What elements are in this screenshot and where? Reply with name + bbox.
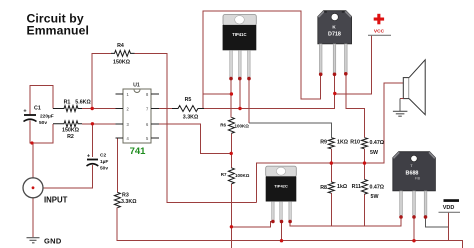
input jack xyxy=(23,178,68,205)
svg-text:3.3KΩ: 3.3KΩ xyxy=(183,115,199,121)
svg-text:5W: 5W xyxy=(371,194,379,200)
resistor R3 xyxy=(114,192,120,207)
svg-text:3.3KΩ: 3.3KΩ xyxy=(121,199,137,205)
resistor R1 xyxy=(53,106,82,112)
wire R6 bottom to junction xyxy=(230,133,232,167)
pin dot TIP42C base xyxy=(271,220,275,224)
junction R6 top node xyxy=(230,92,233,95)
resistor R4 xyxy=(111,50,135,56)
resistor R5 xyxy=(172,106,204,112)
svg-text:150KΩ: 150KΩ xyxy=(113,60,131,66)
wire R7 bottom down across rows to bottom edge xyxy=(230,184,232,248)
VCC terminal xyxy=(368,14,391,36)
junction pin3 node xyxy=(91,122,94,125)
svg-text:Emmanuel: Emmanuel xyxy=(27,24,89,38)
wire C1 top to R1 left xyxy=(30,85,53,115)
wire branch to R6 top xyxy=(203,93,231,95)
pin dot B688 emitter xyxy=(424,215,428,219)
svg-text:D718: D718 xyxy=(328,32,341,38)
junction R6 R7 pin6 node xyxy=(230,152,233,155)
VDD terminal xyxy=(439,199,461,212)
wire pin7 row to D718 collector column xyxy=(159,108,335,110)
wire pin4 down to R3 xyxy=(116,138,118,192)
speaker xyxy=(403,60,425,115)
wire C2 top to pin3 row xyxy=(91,124,93,157)
svg-text:VDD: VDD xyxy=(443,205,455,211)
wire R2 right to pin3 xyxy=(82,123,115,125)
pin dot TIP41C emitter xyxy=(247,77,251,81)
svg-text:150KΩ: 150KΩ xyxy=(62,128,80,134)
transistor Q2 TIP42C xyxy=(266,166,297,220)
svg-text:C1: C1 xyxy=(34,106,41,112)
resistor R7 xyxy=(228,168,234,184)
svg-text:1µF: 1µF xyxy=(100,159,108,165)
wire pin2 node up to R4 left xyxy=(92,53,111,108)
speaker ground xyxy=(393,99,408,117)
junction R7 TIP42C base node xyxy=(230,225,233,228)
svg-text:5W: 5W xyxy=(370,150,378,156)
wire TIP41C collector leg to pin7 row xyxy=(239,78,241,109)
wire TIP41C emitter leg down xyxy=(248,78,250,123)
svg-text:INPUT: INPUT xyxy=(44,196,68,205)
wire TIP42C collector to rail xyxy=(281,222,283,241)
svg-text:741: 741 xyxy=(130,146,147,157)
svg-text:0.47Ω: 0.47Ω xyxy=(370,185,385,191)
resistor R11 xyxy=(362,180,368,195)
wire input junction to R2 xyxy=(33,124,53,143)
wire input circle down to ground xyxy=(32,198,34,237)
junction input coupling node xyxy=(30,141,33,144)
wire R10 bottom to output row xyxy=(364,149,366,163)
svg-text:C2: C2 xyxy=(100,153,106,159)
svg-text:1kΩ: 1kΩ xyxy=(337,184,348,190)
svg-text:R8: R8 xyxy=(320,185,327,191)
junction R10 R11 output node xyxy=(363,161,366,164)
svg-text:R4: R4 xyxy=(117,43,124,49)
junction pin2 feedback node xyxy=(91,107,94,110)
pin dot D718 emitter xyxy=(344,72,348,76)
wire R4 right down to output row xyxy=(135,53,257,202)
junction TIP41C collector row xyxy=(238,107,241,110)
resistor R6 xyxy=(228,117,234,133)
wire input circle to C2 bottom xyxy=(43,165,92,188)
transistor Q4 B688 xyxy=(393,152,436,216)
svg-text:R5: R5 xyxy=(185,97,192,103)
svg-text:U1: U1 xyxy=(133,83,140,89)
title text xyxy=(27,12,89,38)
wire R9 bottom to output row xyxy=(330,149,332,163)
pin dot B688 collector xyxy=(412,215,416,219)
svg-text:5.6KΩ: 5.6KΩ xyxy=(75,100,91,106)
svg-text:R1: R1 xyxy=(64,100,71,106)
svg-text:1KΩ: 1KΩ xyxy=(337,140,349,146)
svg-text:VCC: VCC xyxy=(374,29,385,35)
wire TIP42C base row from R7 column xyxy=(231,222,273,227)
pin dot D718 base xyxy=(319,73,323,77)
svg-text:+: + xyxy=(87,154,90,160)
wire D718 emitter to R10 xyxy=(346,74,365,138)
svg-text:100KΩ: 100KΩ xyxy=(235,173,250,178)
svg-text:R3: R3 xyxy=(122,193,129,199)
pin dot D718 collector xyxy=(333,73,337,77)
svg-text:TIP42C: TIP42C xyxy=(274,184,288,189)
svg-text:100KΩ: 100KΩ xyxy=(235,124,250,129)
capacitor C1 xyxy=(23,106,53,127)
svg-text:R10: R10 xyxy=(350,140,360,146)
wire B688 collector to rail xyxy=(413,217,415,241)
wire R1 right to pin2 xyxy=(82,108,115,110)
junction D718 collector VCC node xyxy=(333,92,336,95)
svg-text:R6: R6 xyxy=(220,123,226,128)
capacitor C2 xyxy=(87,153,109,172)
wire TIP42C emitter bus to B688 base xyxy=(290,217,401,226)
wire R8 column xyxy=(330,163,332,226)
wire top rail TIP41C to D718 base xyxy=(203,11,321,109)
svg-text:50v: 50v xyxy=(39,120,47,126)
wire B688 emitter to VDD column xyxy=(426,217,449,227)
svg-text:220µF: 220µF xyxy=(40,114,54,120)
wire pin6 to R6 R7 junction xyxy=(159,124,231,154)
resistor R8 xyxy=(328,182,334,193)
pin dot TIP42C emitter xyxy=(288,220,292,224)
wire R3 bottom to ground rail xyxy=(117,208,462,248)
transistor Q1 TIP41C xyxy=(223,15,257,78)
svg-text:R7: R7 xyxy=(221,172,227,177)
pin dot TIP41C base xyxy=(229,77,233,81)
svg-text:GND: GND xyxy=(44,237,62,246)
svg-text:R9: R9 xyxy=(320,140,327,146)
svg-text:0.47Ω: 0.47Ω xyxy=(370,140,385,146)
resistor R9 xyxy=(328,138,334,149)
svg-text:R2: R2 xyxy=(67,134,74,140)
wire emitter to R9 top xyxy=(249,123,331,138)
junction TIP42C collector rail xyxy=(280,239,283,242)
pin dot B688 base xyxy=(399,215,403,219)
junction R9 R8 output node xyxy=(330,161,333,164)
svg-text:F/B: F/B xyxy=(415,177,420,181)
ground GND xyxy=(27,237,62,246)
wire C1 bottom to input junction xyxy=(30,121,33,178)
wire VDD down to rail xyxy=(447,212,449,240)
svg-text:TIP41C: TIP41C xyxy=(232,32,246,37)
pin dot TIP42C collector xyxy=(280,220,284,224)
resistor R2 xyxy=(53,121,82,127)
wire D718 collector to VCC xyxy=(335,36,372,109)
wire output row to speaker xyxy=(256,83,403,202)
op-amp U1 741 xyxy=(115,83,159,158)
wire R11 column xyxy=(364,163,366,226)
svg-text:50v: 50v xyxy=(100,166,108,172)
junction B688 collector rail xyxy=(412,239,415,242)
svg-text:+: + xyxy=(23,109,26,115)
pin dot TIP41C collector xyxy=(238,77,242,81)
wire TIP41C base leg to R6 xyxy=(230,78,232,118)
resistor R10 xyxy=(362,138,368,149)
transistor Q3 D718 xyxy=(318,11,352,74)
svg-text:R11: R11 xyxy=(352,184,361,190)
